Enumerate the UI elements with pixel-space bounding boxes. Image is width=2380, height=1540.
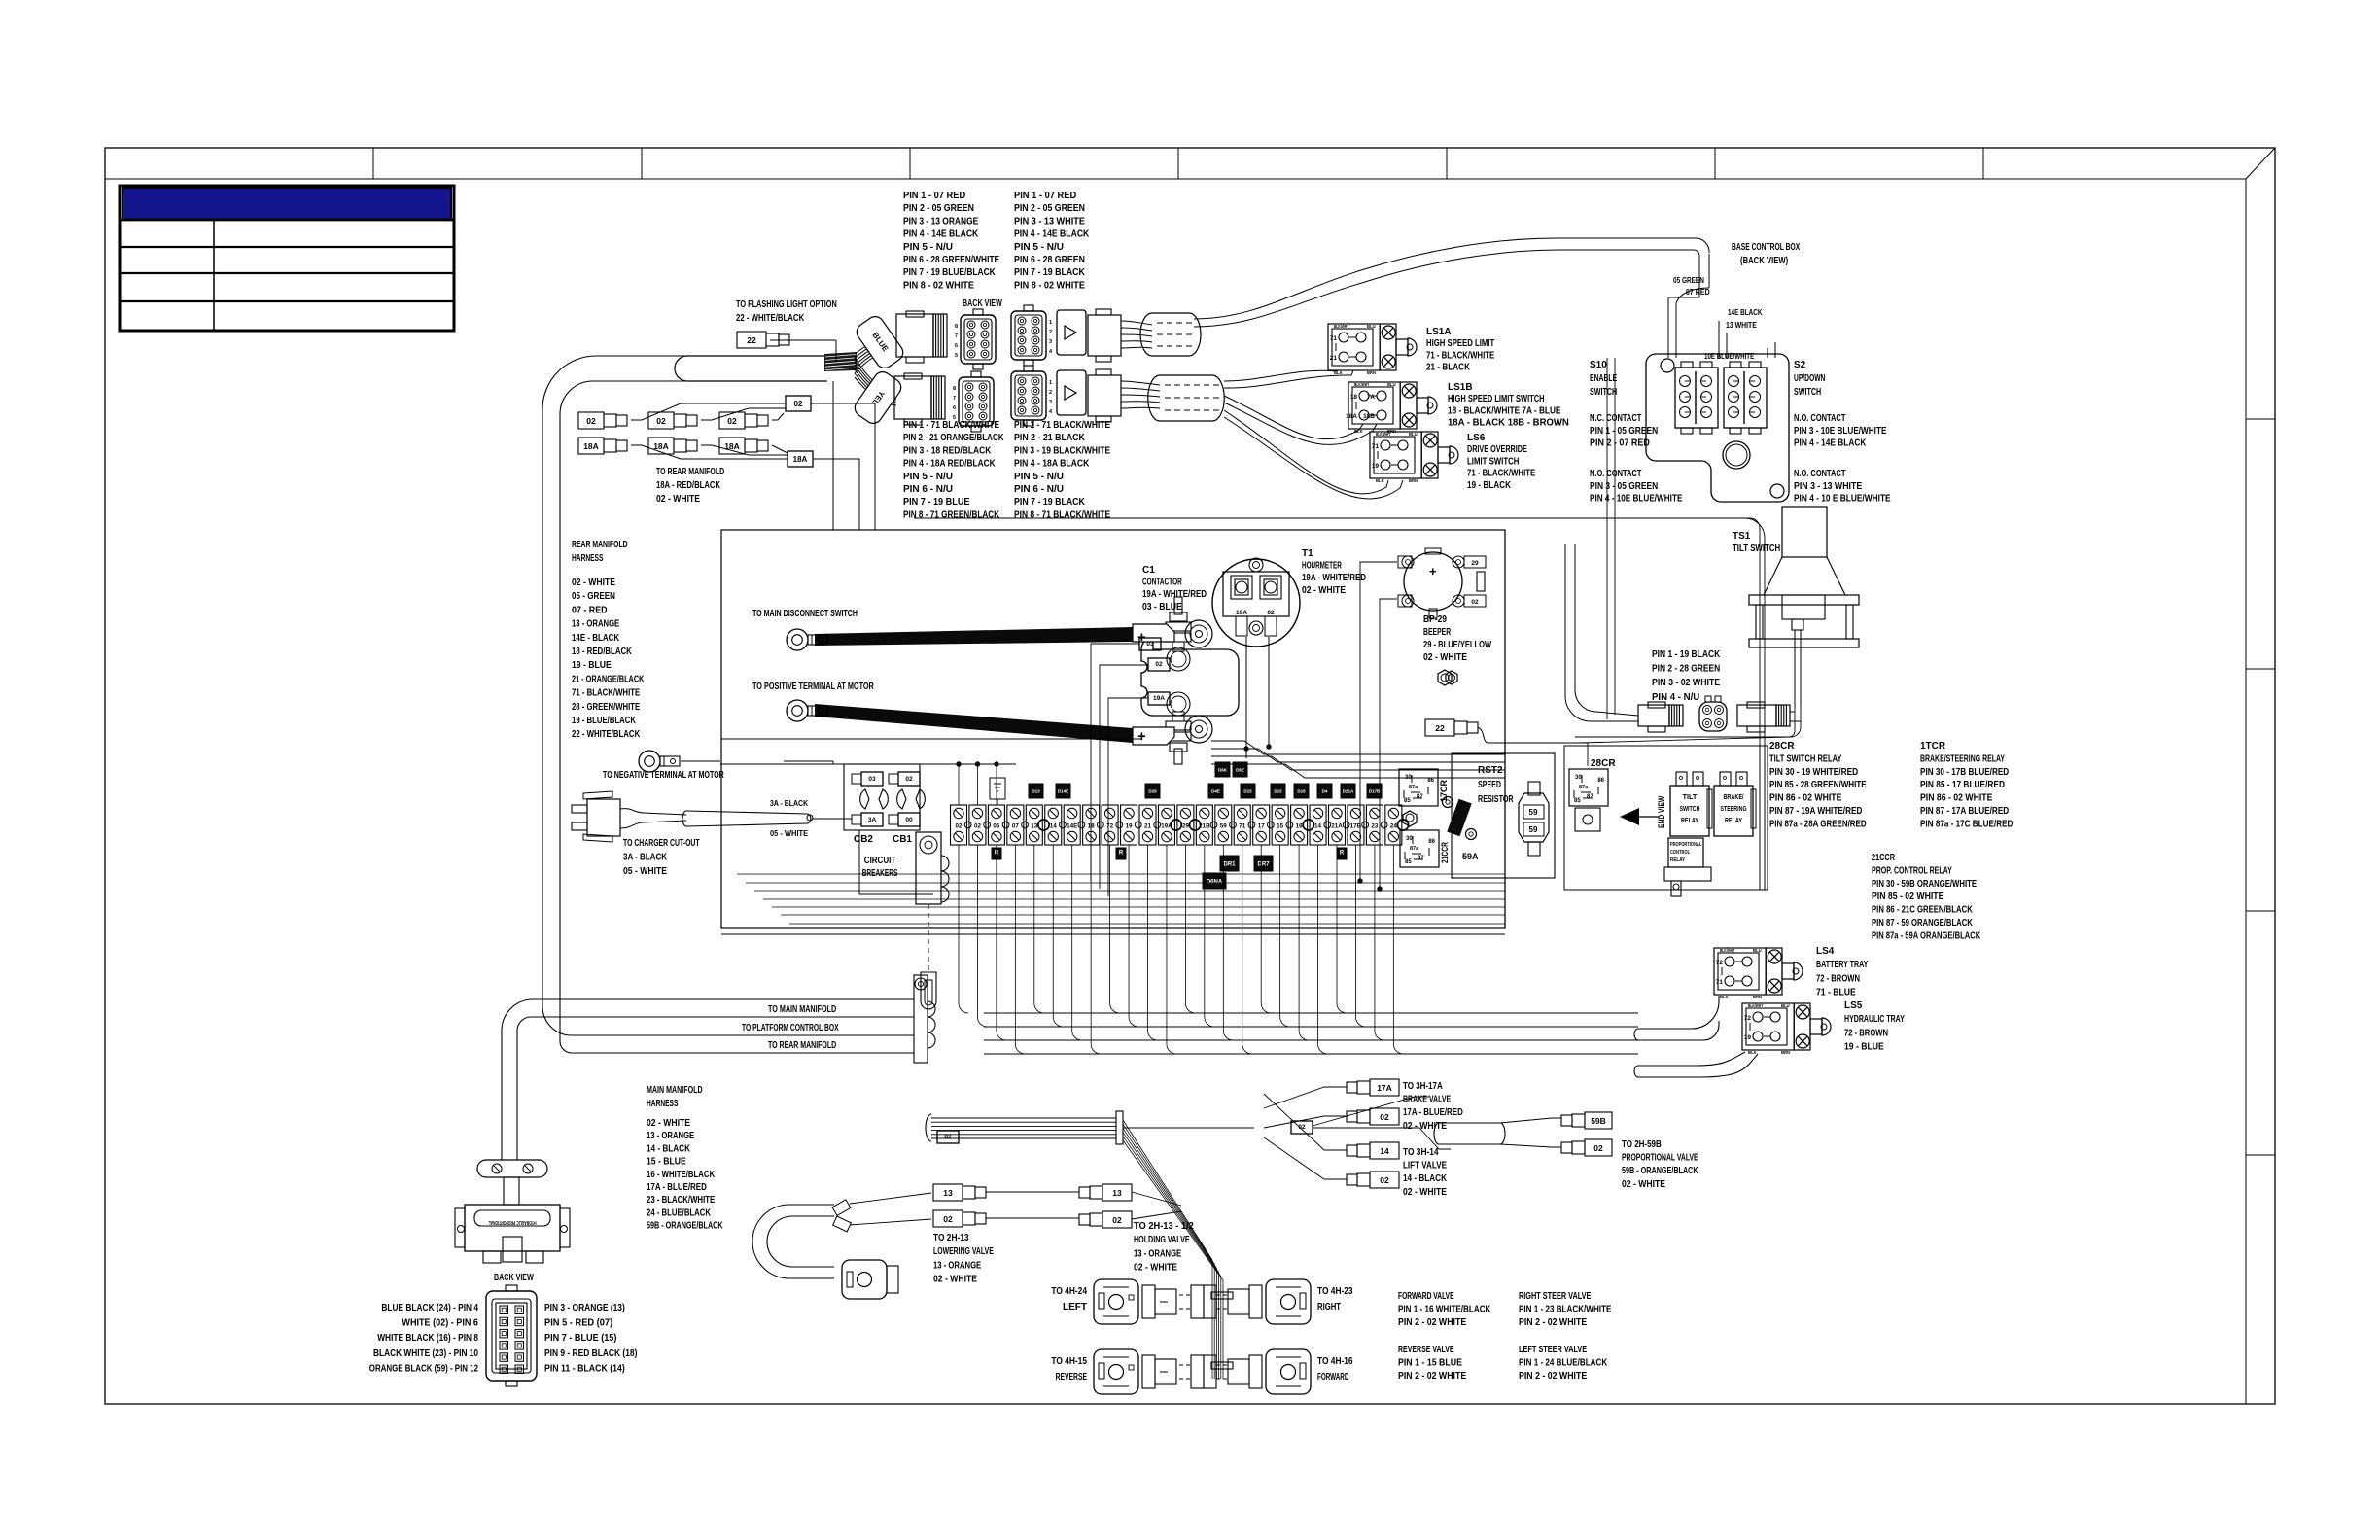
svg-text:PIN 5 - RED (07): PIN 5 - RED (07)	[544, 1318, 612, 1329]
svg-text:24 - BLUE/BLACK: 24 - BLUE/BLACK	[647, 1207, 712, 1218]
svg-text:PIN 1 - 23 BLACK/WHITE: PIN 1 - 23 BLACK/WHITE	[1519, 1305, 1612, 1315]
svg-text:02 - WHITE: 02 - WHITE	[933, 1275, 977, 1285]
svg-text:PIN 6 - N/U: PIN 6 - N/U	[903, 484, 953, 495]
svg-text:PIN 3 - 13 ORANGE: PIN 3 - 13 ORANGE	[903, 216, 978, 227]
svg-text:D6E: D6E	[1236, 768, 1244, 773]
svg-text:19A: 19A	[1236, 610, 1247, 616]
svg-text:PIN 30 - 19 WHITE/RED: PIN 30 - 19 WHITE/RED	[1769, 767, 1858, 778]
svg-text:02 - WHITE: 02 - WHITE	[1403, 1187, 1447, 1198]
svg-text:HIGH SPEED LIMIT SWITCH: HIGH SPEED LIMIT SWITCH	[1448, 394, 1545, 404]
svg-text:02 - WHITE: 02 - WHITE	[656, 494, 700, 505]
svg-text:23: 23	[1371, 823, 1379, 830]
svg-text:UP/DOWN: UP/DOWN	[1794, 373, 1825, 384]
svg-text:REVERSE: REVERSE	[1056, 1372, 1088, 1382]
svg-text:2: 2	[1049, 330, 1052, 335]
svg-text:D6K: D6K	[1218, 768, 1228, 773]
svg-text:28 - GREEN/WHITE: 28 - GREEN/WHITE	[572, 702, 640, 713]
svg-text:23 - BLACK/WHITE: 23 - BLACK/WHITE	[647, 1195, 715, 1206]
svg-text:PIN 2 - 21 ORANGE/BLACK: PIN 2 - 21 ORANGE/BLACK	[903, 433, 1004, 443]
svg-text:18A: 18A	[1346, 413, 1357, 420]
svg-text:13: 13	[943, 1188, 953, 1198]
svg-text:14 - BLACK: 14 - BLACK	[647, 1143, 691, 1154]
svg-text:TO 4H-23: TO 4H-23	[1317, 1286, 1353, 1297]
svg-text:LEFT STEER VALVE: LEFT STEER VALVE	[1519, 1345, 1587, 1355]
svg-text:02: 02	[1593, 1143, 1603, 1153]
svg-text:TILT: TILT	[1683, 792, 1697, 801]
svg-text:3A: 3A	[868, 817, 877, 823]
svg-text:PIN 3 - 18 RED/BLACK: PIN 3 - 18 RED/BLACK	[903, 445, 992, 456]
svg-text:02: 02	[905, 776, 913, 783]
svg-text:21CCR: 21CCR	[1440, 842, 1450, 863]
svg-text:21: 21	[1144, 823, 1152, 830]
svg-text:D21A: D21A	[1343, 789, 1354, 794]
svg-text:PIN 30 - 17B BLUE/RED: PIN 30 - 17B BLUE/RED	[1920, 767, 2009, 778]
svg-text:C1: C1	[1142, 565, 1155, 576]
svg-text:85: 85	[1574, 798, 1581, 804]
svg-text:05 - WHITE: 05 - WHITE	[623, 866, 667, 877]
svg-text:02 - WHITE: 02 - WHITE	[1134, 1263, 1177, 1274]
svg-text:15 - BLUE: 15 - BLUE	[647, 1157, 686, 1168]
svg-text:19 - BLUE: 19 - BLUE	[572, 660, 612, 671]
svg-text:TO 2H-13 - 1/2: TO 2H-13 - 1/2	[1134, 1221, 1194, 1232]
svg-text:18A - RED/BLACK: 18A - RED/BLACK	[656, 480, 721, 491]
svg-text:22: 22	[747, 335, 756, 345]
svg-text:59B: 59B	[1591, 1116, 1606, 1126]
svg-text:14 - BLACK: 14 - BLACK	[1403, 1173, 1448, 1184]
svg-text:BLK: BLK	[1720, 995, 1729, 999]
svg-text:D4: D4	[1322, 789, 1328, 794]
svg-text:PIN 3 - 13 WHITE: PIN 3 - 13 WHITE	[1794, 481, 1862, 492]
svg-text:13 - ORANGE: 13 - ORANGE	[572, 619, 619, 630]
svg-text:HIGH SPEED LIMIT: HIGH SPEED LIMIT	[1426, 338, 1494, 349]
svg-text:72: 72	[1716, 960, 1724, 966]
svg-text:STEERING: STEERING	[1720, 804, 1746, 813]
svg-text:BLK: BLK	[1748, 1050, 1757, 1055]
svg-text:18B: 18B	[1363, 413, 1375, 420]
svg-text:02 - WHITE: 02 - WHITE	[647, 1118, 690, 1129]
svg-text:03: 03	[1146, 641, 1154, 647]
svg-text:02: 02	[727, 416, 737, 426]
svg-text:72 - BROWN: 72 - BROWN	[1816, 973, 1860, 984]
svg-text:2: 2	[1049, 390, 1052, 396]
svg-text:02: 02	[794, 400, 803, 408]
svg-text:05: 05	[993, 823, 1000, 830]
svg-text:02 - WHITE: 02 - WHITE	[1423, 652, 1467, 663]
svg-text:N.O. CONTACT: N.O. CONTACT	[1794, 469, 1845, 479]
svg-text:02: 02	[1112, 1215, 1122, 1225]
svg-text:PIN 87a - 28A GREEN/RED: PIN 87a - 28A GREEN/RED	[1769, 819, 1867, 829]
svg-text:BLU: BLU	[1753, 948, 1762, 953]
svg-text:PIN 5 - N/U: PIN 5 - N/U	[1014, 472, 1064, 482]
svg-text:19: 19	[1126, 823, 1134, 830]
svg-text:DRIVE OVERRIDE: DRIVE OVERRIDE	[1467, 444, 1527, 455]
svg-text:BACK VIEW: BACK VIEW	[962, 298, 1002, 309]
svg-text:D4E: D4E	[1211, 789, 1220, 794]
svg-text:PIN 1 - 05 GREEN: PIN 1 - 05 GREEN	[1590, 426, 1658, 437]
svg-text:WHITE (02) - PIN 6: WHITE (02) - PIN 6	[402, 1318, 478, 1329]
svg-text:8: 8	[955, 324, 958, 330]
svg-text:17A - BLUE/RED: 17A - BLUE/RED	[647, 1182, 707, 1193]
svg-text:D29: D29	[1148, 789, 1157, 794]
svg-text:16: 16	[1296, 823, 1304, 830]
svg-text:SWITCH: SWITCH	[1590, 387, 1617, 398]
svg-text:14: 14	[1050, 823, 1058, 830]
svg-text:21: 21	[1330, 355, 1338, 362]
svg-text:87a: 87a	[1579, 785, 1589, 790]
svg-text:BLU: BLU	[1781, 1003, 1790, 1008]
svg-text:PIN 87a - 17C BLUE/RED: PIN 87a - 17C BLUE/RED	[1920, 819, 2012, 829]
svg-text:BASE CONTROL BOX: BASE CONTROL BOX	[1732, 242, 1800, 253]
svg-text:02: 02	[1380, 1175, 1389, 1185]
svg-text:72: 72	[1106, 823, 1114, 830]
svg-text:RELAY: RELAY	[1670, 857, 1685, 863]
svg-text:71 - BLACK/WHITE: 71 - BLACK/WHITE	[1467, 469, 1535, 479]
svg-text:PIN 2 - 05 GREEN: PIN 2 - 05 GREEN	[903, 203, 974, 214]
svg-text:+: +	[1429, 564, 1437, 578]
svg-text:(BACK VIEW): (BACK VIEW)	[1740, 256, 1788, 266]
svg-text:PIN 4 - 14E BLACK: PIN 4 - 14E BLACK	[1014, 229, 1090, 240]
svg-text:PIN 4 - 18A RED/BLACK: PIN 4 - 18A RED/BLACK	[903, 459, 996, 470]
svg-text:PIN 1 - 24 BLUE/BLACK: PIN 1 - 24 BLUE/BLACK	[1519, 1358, 1608, 1369]
svg-text:71: 71	[1716, 979, 1724, 986]
svg-text:N.O. CONTACT: N.O. CONTACT	[1794, 413, 1845, 424]
svg-text:PIN 87 - 17A BLUE/RED: PIN 87 - 17A BLUE/RED	[1920, 806, 2009, 817]
svg-text:LIFT VALVE: LIFT VALVE	[1403, 1161, 1447, 1172]
svg-text:19 - BLUE: 19 - BLUE	[1844, 1042, 1884, 1053]
svg-text:PIN 3 - 10E BLUE/WHITE: PIN 3 - 10E BLUE/WHITE	[1794, 426, 1887, 437]
svg-text:S10: S10	[1590, 360, 1607, 370]
svg-text:+: +	[1137, 728, 1146, 745]
svg-text:22 - WHITE/BLACK: 22 - WHITE/BLACK	[736, 313, 805, 324]
svg-text:13: 13	[1112, 1188, 1122, 1198]
svg-text:29: 29	[1182, 823, 1190, 830]
svg-text:CONTACTOR: CONTACTOR	[1142, 577, 1182, 588]
svg-text:02: 02	[943, 1214, 953, 1224]
svg-text:13 - ORANGE: 13 - ORANGE	[647, 1131, 694, 1141]
svg-text:PIN 5 - N/U: PIN 5 - N/U	[1014, 242, 1064, 253]
svg-text:TO PLATFORM CONTROL BOX: TO PLATFORM CONTROL BOX	[742, 1023, 839, 1033]
svg-text:03: 03	[868, 776, 876, 783]
svg-text:PIN 8 - 02 WHITE: PIN 8 - 02 WHITE	[903, 280, 974, 291]
svg-text:30: 30	[1406, 836, 1413, 842]
svg-text:PIN 7 - BLUE (15): PIN 7 - BLUE (15)	[544, 1333, 616, 1344]
svg-text:BLK/WHT: BLK/WHT	[1354, 382, 1370, 387]
svg-text:LS4: LS4	[1816, 946, 1835, 957]
svg-text:BLU: BLU	[1387, 382, 1396, 387]
svg-text:LEFT: LEFT	[1063, 1302, 1087, 1312]
svg-text:7: 7	[953, 396, 956, 402]
svg-text:TO REAR MANIFOLD: TO REAR MANIFOLD	[656, 467, 724, 477]
svg-text:BRAKE VALVE: BRAKE VALVE	[1403, 1095, 1451, 1105]
svg-text:PIN 5 - N/U: PIN 5 - N/U	[903, 472, 953, 482]
svg-text:PIN 9 - RED BLACK (18): PIN 9 - RED BLACK (18)	[544, 1348, 637, 1359]
svg-text:72: 72	[1744, 1015, 1752, 1022]
svg-text:R: R	[1119, 851, 1124, 857]
svg-text:TO 3H-17A: TO 3H-17A	[1403, 1081, 1443, 1092]
svg-text:PIN 3 - 19 BLACK/WHITE: PIN 3 - 19 BLACK/WHITE	[1014, 445, 1110, 456]
svg-text:PIN 6 - 28 GREEN/WHITE: PIN 6 - 28 GREEN/WHITE	[903, 255, 999, 265]
svg-text:HARNESS: HARNESS	[647, 1099, 679, 1109]
svg-text:RIGHT STEER VALVE: RIGHT STEER VALVE	[1519, 1291, 1592, 1302]
svg-text:RIGHT: RIGHT	[1317, 1302, 1341, 1312]
svg-text:6: 6	[953, 405, 956, 411]
svg-text:D6NA: D6NA	[1207, 880, 1223, 886]
svg-text:BLK: BLK	[1334, 370, 1343, 375]
svg-text:21B: 21B	[1199, 823, 1210, 830]
svg-text:TO 4H-15: TO 4H-15	[1051, 1356, 1087, 1367]
svg-text:SWITCH: SWITCH	[1679, 804, 1699, 813]
svg-text:RELAY: RELAY	[1681, 816, 1698, 824]
svg-text:REVERSE VALVE: REVERSE VALVE	[1398, 1345, 1454, 1355]
svg-text:BP-29: BP-29	[1423, 614, 1447, 625]
svg-text:13 - ORANGE: 13 - ORANGE	[1134, 1248, 1181, 1259]
svg-text:1: 1	[1049, 320, 1052, 326]
svg-text:PIN 3 - 02 WHITE: PIN 3 - 02 WHITE	[1652, 678, 1720, 688]
svg-text:59: 59	[1220, 823, 1228, 830]
svg-text:R: R	[995, 851, 999, 857]
svg-text:71: 71	[1372, 443, 1380, 450]
svg-text:S2: S2	[1794, 360, 1806, 370]
svg-text:RELAY: RELAY	[1725, 816, 1742, 824]
svg-text:14: 14	[1314, 823, 1322, 830]
svg-text:T1: T1	[1302, 548, 1313, 559]
svg-text:PIN 86 - 02 WHITE: PIN 86 - 02 WHITE	[1920, 793, 1993, 804]
svg-text:59A: 59A	[1462, 852, 1479, 861]
svg-text:PIN 2 - 02 WHITE: PIN 2 - 02 WHITE	[1519, 1371, 1587, 1382]
svg-text:BACK VIEW: BACK VIEW	[494, 1273, 534, 1283]
svg-text:02 - WHITE: 02 - WHITE	[572, 577, 615, 588]
svg-text:PIN 8 - 71 BLACK/WHITE: PIN 8 - 71 BLACK/WHITE	[1014, 509, 1110, 520]
svg-text:SWITCH: SWITCH	[1794, 387, 1821, 398]
svg-text:71: 71	[1239, 823, 1246, 830]
svg-text:87a: 87a	[1409, 785, 1418, 790]
svg-text:16 - WHITE/BLACK: 16 - WHITE/BLACK	[647, 1170, 716, 1180]
svg-text:02: 02	[656, 416, 666, 426]
svg-text:PIN 4 - 10 E BLUE/WHITE: PIN 4 - 10 E BLUE/WHITE	[1794, 494, 1891, 505]
svg-text:CONTROL: CONTROL	[1670, 850, 1690, 856]
svg-text:CB2: CB2	[854, 834, 873, 845]
svg-text:PIN 4 - 14E BLACK: PIN 4 - 14E BLACK	[1794, 438, 1867, 449]
svg-text:PIN 8 - 02 WHITE: PIN 8 - 02 WHITE	[1014, 280, 1085, 291]
svg-text:PIN 2 - 02 WHITE: PIN 2 - 02 WHITE	[1519, 1317, 1587, 1328]
svg-text:19A: 19A	[1153, 695, 1165, 702]
svg-text:14: 14	[1380, 1146, 1389, 1156]
svg-text:WHITE BLACK (16) - PIN 8: WHITE BLACK (16) - PIN 8	[377, 1333, 478, 1344]
svg-text:02: 02	[1380, 1112, 1389, 1122]
svg-text:LS1A: LS1A	[1426, 327, 1452, 337]
svg-text:PIN 85 - 02 WHITE: PIN 85 - 02 WHITE	[1872, 892, 1944, 902]
svg-text:BLK/WHT: BLK/WHT	[1334, 324, 1349, 329]
svg-text:PIN 8 - 71 GREEN/BLACK: PIN 8 - 71 GREEN/BLACK	[903, 509, 999, 520]
svg-text:PIN 3 - 05 GREEN: PIN 3 - 05 GREEN	[1590, 481, 1658, 492]
svg-text:71 - BLACK/WHITE: 71 - BLACK/WHITE	[572, 688, 640, 699]
svg-text:17A: 17A	[1377, 1083, 1392, 1093]
svg-text:PIN 2 - 02 WHITE: PIN 2 - 02 WHITE	[1398, 1317, 1466, 1328]
svg-text:13 WHITE: 13 WHITE	[1726, 320, 1757, 330]
svg-text:TO 3H-14: TO 3H-14	[1403, 1147, 1439, 1158]
svg-text:D13: D13	[1032, 789, 1040, 794]
svg-text:TO REAR MANIFOLD: TO REAR MANIFOLD	[768, 1040, 836, 1051]
svg-text:18A: 18A	[583, 441, 599, 451]
svg-text:D14E: D14E	[1058, 789, 1068, 794]
svg-text:03 - BLUE: 03 - BLUE	[1142, 602, 1182, 612]
svg-text:LS5: LS5	[1844, 1000, 1863, 1011]
svg-text:7: 7	[955, 333, 958, 339]
svg-text:13 - ORANGE: 13 - ORANGE	[933, 1260, 981, 1271]
svg-text:BLK/WHT: BLK/WHT	[1376, 432, 1391, 437]
svg-text:BLUE BLACK (24) - PIN 4: BLUE BLACK (24) - PIN 4	[381, 1303, 478, 1313]
svg-text:TO CHARGER CUT-OUT: TO CHARGER CUT-OUT	[623, 838, 700, 849]
svg-text:HYDRAULIC PROPORTIONAL: HYDRAULIC PROPORTIONAL	[488, 1219, 536, 1225]
svg-text:02 - WHITE: 02 - WHITE	[1302, 585, 1346, 596]
svg-text:28CR: 28CR	[1769, 741, 1795, 752]
svg-text:05 - WHITE: 05 - WHITE	[770, 828, 808, 838]
svg-text:TO FLASHING LIGHT OPTION: TO FLASHING LIGHT OPTION	[736, 299, 837, 310]
svg-text:D15: D15	[1274, 789, 1282, 794]
svg-text:PIN 4 - N/U: PIN 4 - N/U	[1652, 692, 1699, 703]
svg-text:21 - BLACK: 21 - BLACK	[1426, 363, 1471, 373]
svg-text:1TCR: 1TCR	[1920, 741, 1946, 752]
svg-text:30: 30	[1575, 775, 1582, 781]
svg-text:87: 87	[1417, 794, 1423, 800]
svg-text:72 - BROWN: 72 - BROWN	[1844, 1028, 1888, 1038]
svg-text:BLK/WHT: BLK/WHT	[1748, 1003, 1764, 1008]
svg-text:71: 71	[1330, 335, 1338, 342]
svg-text:PIN 85 - 17 BLUE/RED: PIN 85 - 17 BLUE/RED	[1920, 780, 2005, 790]
svg-text:BRAKE/STEERING RELAY: BRAKE/STEERING RELAY	[1920, 753, 2005, 764]
svg-text:3A - BLACK: 3A - BLACK	[770, 798, 809, 808]
svg-text:LIMIT SWITCH: LIMIT SWITCH	[1467, 456, 1519, 467]
svg-text:5: 5	[955, 353, 958, 359]
svg-text:14E - BLACK: 14E - BLACK	[572, 633, 620, 644]
svg-text:TO 4H-24: TO 4H-24	[1051, 1286, 1087, 1297]
svg-text:LS6: LS6	[1467, 433, 1486, 443]
svg-text:59: 59	[1529, 808, 1538, 817]
svg-text:D17B: D17B	[1369, 789, 1381, 794]
svg-text:PIN 2 - 02 WHITE: PIN 2 - 02 WHITE	[1398, 1371, 1466, 1382]
svg-text:SPEED: SPEED	[1478, 780, 1501, 790]
svg-text:BRN: BRN	[1367, 370, 1376, 375]
svg-text:BRN: BRN	[1753, 995, 1762, 999]
svg-text:85: 85	[1405, 859, 1412, 865]
svg-text:3A - BLACK: 3A - BLACK	[623, 853, 668, 863]
svg-text:ORANGE BLACK (59) - PIN 12: ORANGE BLACK (59) - PIN 12	[369, 1363, 479, 1374]
svg-text:BATTERY TRAY: BATTERY TRAY	[1816, 960, 1869, 970]
svg-text:PIN 1 - 15 BLUE: PIN 1 - 15 BLUE	[1398, 1358, 1462, 1369]
svg-text:18A - BLACK 18B - BROWN: 18A - BLACK 18B - BROWN	[1448, 418, 1569, 429]
svg-text:19: 19	[1372, 463, 1380, 470]
svg-text:TO 2H-59B: TO 2H-59B	[1622, 1139, 1662, 1150]
svg-text:18A: 18A	[793, 455, 808, 464]
svg-text:PIN 7 - 19 BLUE/BLACK: PIN 7 - 19 BLUE/BLACK	[903, 267, 996, 278]
svg-text:29: 29	[1471, 560, 1479, 567]
svg-text:07 - RED: 07 - RED	[572, 605, 608, 615]
svg-text:FORWARD: FORWARD	[1317, 1372, 1348, 1382]
svg-text:22: 22	[1435, 723, 1445, 733]
svg-text:PIN 86 - 02 WHITE: PIN 86 - 02 WHITE	[1769, 793, 1842, 804]
svg-text:BRN: BRN	[1781, 1050, 1790, 1055]
svg-text:PIN 1 - 16 WHITE/BLACK: PIN 1 - 16 WHITE/BLACK	[1398, 1305, 1491, 1315]
svg-text:FORWARD VALVE: FORWARD VALVE	[1398, 1291, 1454, 1302]
svg-text:PIN 4 - 14E BLACK: PIN 4 - 14E BLACK	[903, 229, 979, 240]
svg-text:29 - BLUE/YELLOW: 29 - BLUE/YELLOW	[1423, 640, 1492, 650]
svg-text:59B - ORANGE/BLACK: 59B - ORANGE/BLACK	[1622, 1166, 1698, 1176]
svg-text:13: 13	[1031, 823, 1038, 830]
svg-text:RST2: RST2	[1478, 765, 1503, 776]
svg-text:17A - BLUE/RED: 17A - BLUE/RED	[1403, 1107, 1463, 1118]
svg-text:REAR MANIFOLD: REAR MANIFOLD	[572, 540, 628, 550]
svg-text:BLACK WHITE (23) - PIN 10: BLACK WHITE (23) - PIN 10	[373, 1348, 478, 1359]
svg-text:5: 5	[953, 415, 956, 421]
svg-text:PIN 6 - 28 GREEN: PIN 6 - 28 GREEN	[1014, 255, 1085, 265]
svg-text:PIN 3 - 13 WHITE: PIN 3 - 13 WHITE	[1014, 216, 1085, 227]
svg-text:TO NEGATIVE TERMINAL AT MOTOR: TO NEGATIVE TERMINAL AT MOTOR	[603, 770, 724, 781]
svg-text:7A: 7A	[1367, 394, 1376, 401]
svg-text:8: 8	[953, 386, 956, 392]
svg-text:18: 18	[1350, 394, 1358, 401]
svg-text:PROPORTIONAL: PROPORTIONAL	[1670, 842, 1702, 848]
svg-text:6: 6	[955, 343, 958, 349]
svg-text:BRAKE/: BRAKE/	[1723, 792, 1743, 801]
svg-text:14E: 14E	[1067, 823, 1077, 830]
svg-text:86: 86	[1428, 839, 1435, 845]
svg-text:R: R	[1340, 851, 1345, 857]
svg-text:07: 07	[1012, 823, 1020, 830]
svg-text:71 - BLACK/WHITE: 71 - BLACK/WHITE	[1426, 350, 1494, 361]
svg-text:PIN 87a - 59A ORANGE/BLACK: PIN 87a - 59A ORANGE/BLACK	[1872, 930, 1981, 941]
svg-text:17B: 17B	[1350, 823, 1362, 830]
svg-text:END VIEW: END VIEW	[1657, 795, 1666, 828]
svg-text:02: 02	[974, 823, 982, 830]
svg-text:BRN: BRN	[1409, 478, 1417, 483]
svg-text:PROPORTIONAL VALVE: PROPORTIONAL VALVE	[1622, 1153, 1698, 1164]
svg-text:HYDRAULIC TRAY: HYDRAULIC TRAY	[1844, 1014, 1905, 1025]
svg-text:BLU: BLU	[1409, 432, 1417, 437]
svg-text:CB1: CB1	[892, 834, 912, 845]
svg-text:87: 87	[1417, 856, 1424, 861]
svg-text:PIN 7 - 19 BLUE: PIN 7 - 19 BLUE	[903, 497, 970, 507]
svg-text:HOLDING VALVE: HOLDING VALVE	[1134, 1235, 1190, 1245]
svg-text:22 - WHITE/BLACK: 22 - WHITE/BLACK	[572, 729, 641, 740]
svg-text:02: 02	[586, 416, 596, 426]
svg-text:PIN 87 - 59 ORANGE/BLACK: PIN 87 - 59 ORANGE/BLACK	[1872, 918, 1973, 928]
svg-text:PIN 3 - ORANGE (13): PIN 3 - ORANGE (13)	[544, 1303, 625, 1313]
svg-text:02: 02	[1155, 661, 1163, 668]
svg-text:TO 4H-16: TO 4H-16	[1317, 1356, 1353, 1367]
svg-text:TO 2H-13: TO 2H-13	[933, 1233, 969, 1243]
svg-text:PIN 7 - 19 BLACK: PIN 7 - 19 BLACK	[1014, 267, 1085, 278]
svg-text:21 - ORANGE/BLACK: 21 - ORANGE/BLACK	[572, 674, 645, 684]
svg-text:59B - ORANGE/BLACK: 59B - ORANGE/BLACK	[647, 1221, 723, 1232]
svg-text:PIN 86 - 21C GREEN/BLACK: PIN 86 - 21C GREEN/BLACK	[1872, 905, 1973, 916]
svg-text:24: 24	[1390, 823, 1398, 830]
svg-text:PIN 87 - 19A WHITE/RED: PIN 87 - 19A WHITE/RED	[1769, 806, 1862, 817]
svg-text:19 - BLUE/BLACK: 19 - BLUE/BLACK	[572, 716, 637, 726]
svg-text:05 - GREEN: 05 - GREEN	[572, 591, 615, 602]
svg-text:00: 00	[905, 817, 913, 823]
svg-text:PIN 5 - N/U: PIN 5 - N/U	[903, 242, 953, 253]
svg-text:TS1: TS1	[1732, 531, 1751, 542]
svg-text:19A - WHITE/RED: 19A - WHITE/RED	[1302, 573, 1366, 583]
svg-text:14E BLACK: 14E BLACK	[1728, 307, 1763, 317]
svg-text:21CCR: 21CCR	[1872, 853, 1896, 863]
svg-text:PIN 6 - N/U: PIN 6 - N/U	[1014, 484, 1064, 495]
svg-text:CIRCUIT: CIRCUIT	[864, 856, 895, 866]
svg-text:PIN 4 - 10E BLUE/WHITE: PIN 4 - 10E BLUE/WHITE	[1590, 494, 1683, 505]
svg-text:PIN 1 - 07 RED: PIN 1 - 07 RED	[903, 191, 966, 201]
svg-text:18: 18	[1088, 823, 1096, 830]
svg-text:PIN 2 - 28 GREEN: PIN 2 - 28 GREEN	[1652, 664, 1720, 675]
